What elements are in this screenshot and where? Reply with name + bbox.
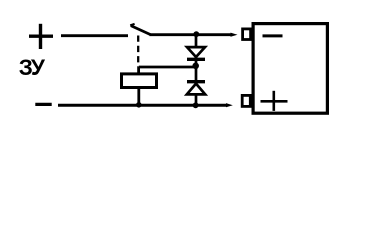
battery plus sign [261,91,288,111]
diode VD2 [187,67,205,105]
node: top junction dot [193,31,199,37]
battery terminal top [243,29,251,40]
wire: coil bottom stub [137,89,140,106]
battery (accumulator) outline [253,24,327,114]
node: middle junction dot [192,63,199,70]
mechanical linkage (dashed) [137,36,139,68]
wire: minus rail from charger to battery [58,103,233,107]
relay contact (switch) blade [130,24,150,35]
diode VD1 [187,35,205,65]
wire: plus rail from charger to switch [61,34,128,37]
wire: relay coil to diodes junction [139,66,194,69]
charger minus terminal symbol [35,103,51,106]
relay coil [122,67,157,88]
node: diode to minus rail junction dot [193,102,199,108]
battery minus sign [263,34,283,37]
charger plus terminal symbol [29,24,53,49]
svg-text:ЗУ: ЗУ [19,55,46,80]
wire: plus rail from switch to battery [150,33,238,37]
battery terminal bottom [242,95,250,106]
node: coil to minus rail junction dot [136,102,142,108]
